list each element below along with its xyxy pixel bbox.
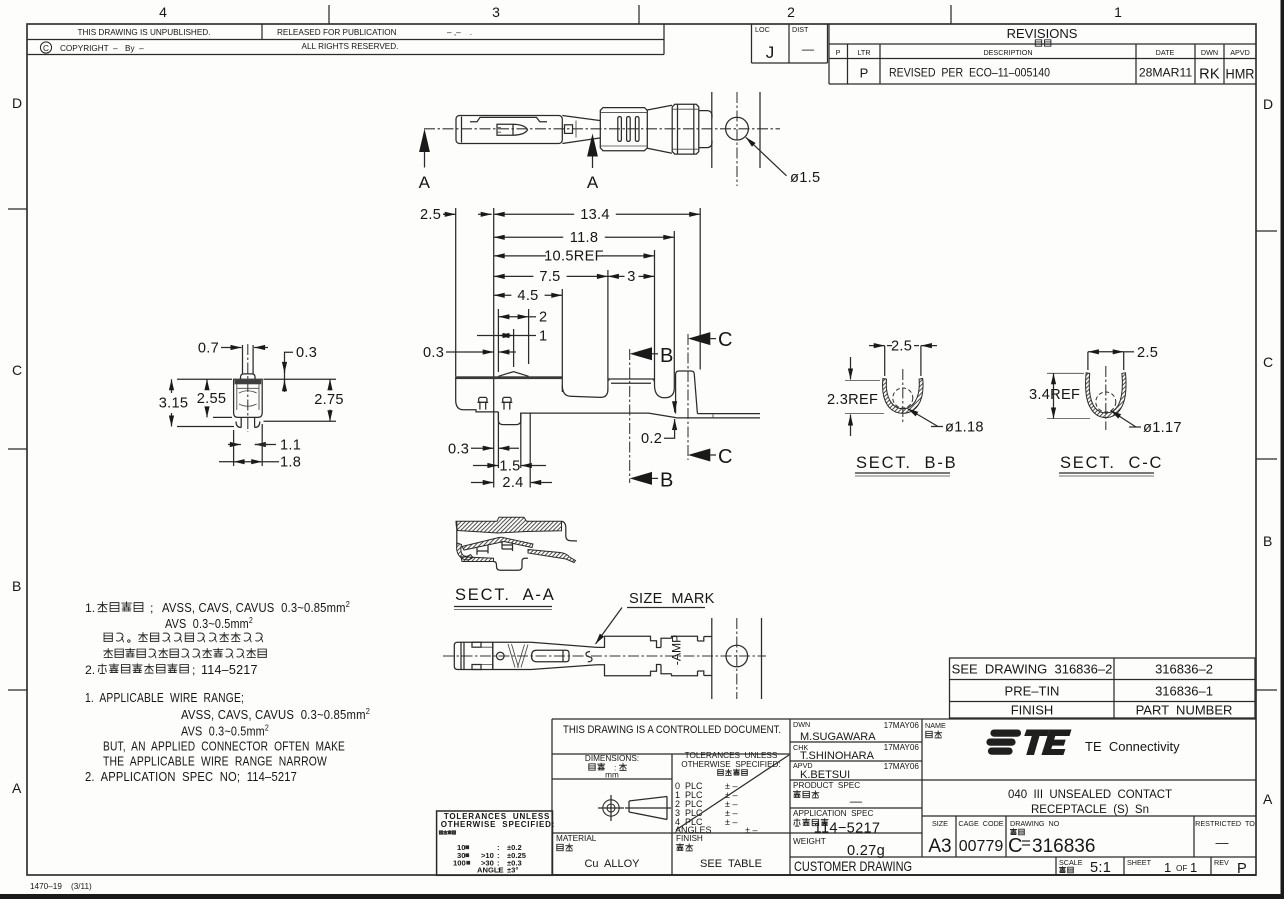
svg-text:LOC: LOC	[755, 25, 770, 34]
bottom view mid compartment	[492, 642, 494, 669]
svg-text:17MAY06: 17MAY06	[884, 721, 920, 730]
dimension 1	[498, 335, 513, 337]
svg-text:316836: 316836	[1032, 836, 1095, 857]
note japanese line 3	[104, 633, 112, 641]
top view carrier hole	[726, 117, 749, 140]
svg-text:7.5: 7.5	[539, 269, 560, 285]
svg-text:J: J	[766, 43, 775, 62]
svg-text:;: ;	[150, 601, 153, 615]
elevation carrier strip	[697, 413, 760, 415]
svg-text:Cu ALLOY: Cu ALLOY	[584, 858, 640, 870]
svg-text:11.8: 11.8	[570, 230, 599, 246]
svg-text:2: 2	[539, 310, 547, 326]
svg-text:SECT. A-A: SECT. A-A	[455, 586, 556, 604]
sect A-A bottom wall right	[528, 550, 576, 563]
svg-text:0.7: 0.7	[198, 340, 219, 356]
dimension 3	[608, 275, 625, 277]
svg-text:—: —	[850, 794, 863, 808]
svg-text:0.2: 0.2	[641, 431, 662, 447]
svg-text:BUT, AN APPLIED CONNECTOR: BUT, AN APPLIED CONNECTOR OFTEN MAKE	[103, 740, 345, 754]
elevation extension lines	[455, 208, 457, 376]
svg-text:C: C	[12, 362, 22, 378]
svg-text:SIZE: SIZE	[932, 819, 948, 828]
finish part-number table	[950, 658, 1256, 718]
front view box body	[234, 379, 263, 417]
svg-text:B: B	[12, 578, 21, 594]
svg-text:DWN: DWN	[793, 720, 810, 729]
svg-text:2.4: 2.4	[502, 475, 523, 491]
svg-text:AVSS, CAVS, CAVUS 0.3~0.85mm2: AVSS, CAVS, CAVUS 0.3~0.85mm2	[181, 707, 370, 722]
top view receptacle body	[456, 116, 562, 144]
svg-text:APPLICATION SPEC: APPLICATION SPEC	[793, 809, 873, 818]
svg-text:0.3: 0.3	[448, 442, 469, 458]
svg-text:B: B	[1263, 533, 1272, 549]
bottom view tapered body	[531, 642, 597, 669]
svg-text:2. APPLICATION SPEC NO; 11: 2. APPLICATION SPEC NO; 114–5217	[85, 770, 297, 784]
svg-text:00779: 00779	[959, 838, 1004, 855]
sect A-A left wall and lower hook	[456, 521, 458, 545]
svg-text:OTHERWISE SPECIFIED:: OTHERWISE SPECIFIED:	[441, 820, 555, 829]
svg-text:DATE: DATE	[1156, 48, 1175, 57]
svg-text:3.15: 3.15	[159, 396, 189, 412]
bottom view carrier connection	[698, 637, 704, 676]
svg-text:2.75: 2.75	[314, 392, 344, 408]
svg-text:1. APPLICABLE WIRE RANGE;: 1. APPLICABLE WIRE RANGE;	[85, 691, 244, 705]
elevation bottom pocket	[498, 412, 520, 425]
svg-text:± –: ± –	[725, 817, 737, 827]
front view inner contact arc	[239, 391, 257, 407]
svg-text:2.3REF: 2.3REF	[827, 392, 878, 408]
elevation bottom edge right	[521, 413, 676, 418]
dimension 11.8	[494, 236, 564, 238]
svg-text:040 III UNSEALED CONTACT: 040 III UNSEALED CONTACT	[1008, 787, 1173, 801]
svg-text:A: A	[12, 780, 22, 796]
tolerance diagonal line	[676, 755, 789, 830]
top view body slot	[470, 117, 547, 121]
section arrow B upper	[630, 347, 652, 360]
elevation insulation crimp wing	[655, 379, 675, 398]
svg-text:114–5217: 114–5217	[201, 663, 258, 677]
svg-text:10.5REF: 10.5REF	[544, 248, 604, 264]
note japanese line 4	[104, 648, 113, 657]
svg-text:P: P	[836, 48, 841, 57]
svg-text:RK: RK	[1199, 67, 1220, 83]
section arrow C upper	[688, 332, 710, 345]
LOC DIST box	[751, 24, 753, 63]
front view lower legs	[236, 417, 260, 427]
sect B-B centerline	[902, 369, 904, 424]
sect B-B wire circle	[893, 388, 913, 408]
svg-text:SECT. C-C: SECT. C-C	[1060, 454, 1163, 472]
svg-text:DWN: DWN	[1201, 48, 1218, 57]
svg-text:1: 1	[1164, 860, 1171, 875]
section line C-C	[687, 334, 689, 460]
section line B-B	[629, 349, 631, 483]
svg-text:13.4: 13.4	[580, 207, 610, 223]
svg-text:OTHERWISE SPECIFIED:: OTHERWISE SPECIFIED:	[681, 760, 780, 769]
front view wire stem	[242, 345, 244, 374]
sect A-A right outline	[562, 521, 578, 541]
top view centerline	[424, 128, 780, 130]
svg-text:NAME: NAME	[925, 721, 946, 730]
svg-text:SEE DRAWING 316836–2: SEE DRAWING 316836–2	[952, 662, 1113, 677]
svg-text:3.4REF: 3.4REF	[1029, 387, 1080, 403]
zone tick marks top	[328, 5, 330, 24]
section arrow B lower	[630, 472, 652, 485]
TE logo	[986, 730, 1071, 756]
svg-text:1.8: 1.8	[280, 455, 301, 471]
svg-text:0.3: 0.3	[423, 345, 444, 361]
svg-text:ANGLE: ANGLE	[477, 866, 504, 875]
wire barrel serrations	[618, 117, 622, 142]
svg-text:AVSS, CAVS, CAVUS 0.3~0.85mm2: AVSS, CAVS, CAVUS 0.3~0.85mm2	[162, 600, 350, 615]
svg-text:C: C	[1263, 354, 1273, 370]
svg-text:AVS 0.3~0.5mm2: AVS 0.3~0.5mm2	[181, 724, 269, 739]
dimension 2	[498, 316, 528, 318]
front view centerline	[247, 344, 249, 432]
svg-text:3: 3	[627, 269, 635, 285]
svg-text:1: 1	[539, 328, 547, 344]
dimension 4.5	[494, 294, 512, 296]
svg-text:MATERIAL: MATERIAL	[556, 834, 597, 843]
svg-text:DIMENSIONS:: DIMENSIONS:	[585, 754, 639, 763]
svg-text:SECT. B-B: SECT. B-B	[856, 454, 957, 472]
svg-text:1: 1	[1114, 4, 1122, 20]
svg-text:DESCRIPTION: DESCRIPTION	[983, 48, 1032, 57]
front view lance dome	[241, 374, 256, 379]
svg-text:RELEASED FOR PUBLICATION: RELEASED FOR PUBLICATION	[277, 28, 397, 37]
svg-text:D: D	[12, 95, 22, 111]
svg-text:OF: OF	[1176, 864, 1187, 873]
svg-text:2.5: 2.5	[420, 207, 441, 223]
svg-text:ø1.18: ø1.18	[945, 420, 984, 436]
svg-text:17MAY06: 17MAY06	[884, 743, 920, 752]
svg-text:17MAY06: 17MAY06	[884, 762, 920, 771]
svg-text:DIST: DIST	[792, 25, 809, 34]
bottom view tongue	[532, 650, 570, 661]
svg-text:A: A	[1263, 791, 1273, 807]
elevation lance bumps	[479, 397, 487, 402]
svg-text:LTR: LTR	[857, 48, 870, 57]
svg-text:C: C	[718, 329, 732, 351]
svg-text:2.5: 2.5	[1137, 345, 1158, 361]
svg-text:B: B	[660, 470, 673, 492]
zone tick marks left	[8, 208, 27, 210]
elevation carrier link tab	[676, 371, 698, 414]
bottom view left box	[454, 642, 493, 669]
svg-text::: :	[497, 866, 500, 875]
svg-text:2.55: 2.55	[197, 391, 227, 407]
svg-text:A3: A3	[928, 836, 951, 857]
svg-text:RECEPTACLE (S) Sn: RECEPTACLE (S) Sn	[1031, 802, 1149, 816]
section cut arrow A left	[419, 129, 430, 152]
svg-text:±3°: ±3°	[507, 866, 518, 875]
elevation body left edge and bottom	[456, 376, 499, 412]
svg-text:PART NUMBER: PART NUMBER	[1136, 703, 1233, 718]
sect C-C crimp outline	[1086, 373, 1126, 418]
bottom view wide section	[597, 636, 661, 675]
svg-text:114−5217: 114−5217	[814, 821, 881, 837]
bottom view neck and amp mark section	[661, 636, 698, 675]
svg-text:SIZE MARK: SIZE MARK	[629, 591, 715, 607]
svg-text:B: B	[660, 345, 673, 367]
svg-text:mm: mm	[605, 771, 619, 780]
bottom view centerline	[443, 655, 766, 657]
size mark leader and label	[596, 608, 623, 645]
svg-text:;: ;	[192, 663, 195, 677]
sect B-B crimp outline	[883, 379, 923, 414]
svg-text:2.: 2.	[85, 663, 95, 677]
svg-text:—: —	[1216, 835, 1229, 850]
svg-text:ALL RIGHTS RESERVED.: ALL RIGHTS RESERVED.	[302, 42, 399, 51]
svg-text:0.3: 0.3	[296, 345, 317, 361]
svg-text:0.27g: 0.27g	[847, 843, 885, 859]
svg-text:THIS DRAWING IS UNPUBLISHED.: THIS DRAWING IS UNPUBLISHED.	[78, 28, 211, 37]
svg-text:1.1: 1.1	[280, 437, 301, 453]
sect C-C wire circle	[1096, 392, 1116, 412]
svg-text:REV: REV	[1214, 858, 1229, 867]
svg-text:P: P	[860, 66, 869, 81]
elevation shelf between wings	[608, 379, 655, 383]
elevation body top band	[456, 376, 563, 379]
svg-text:C: C	[43, 44, 49, 53]
svg-text:1: 1	[1190, 860, 1197, 875]
svg-text:M.SUGAWARA: M.SUGAWARA	[800, 731, 876, 743]
section arrow C lower	[688, 449, 710, 462]
svg-text:100: 100	[453, 859, 466, 868]
top view bullet contact	[497, 124, 528, 135]
svg-text:THIS DRAWING IS A CONTROLLED D: THIS DRAWING IS A CONTROLLED DOCUMENT.	[563, 724, 781, 736]
svg-text:ø1.17: ø1.17	[1143, 420, 1182, 436]
section cut arrow A right	[587, 134, 598, 157]
svg-text:REVISIONS: REVISIONS	[1007, 26, 1078, 41]
svg-text:FINISH: FINISH	[676, 834, 703, 843]
svg-text:ø1.5: ø1.5	[790, 170, 820, 186]
svg-text:TOLERANCES UNLESS: TOLERANCES UNLESS	[685, 751, 778, 760]
top view transition taper	[562, 116, 600, 121]
sect B-B wire diameter leader 1.18	[908, 409, 939, 427]
svg-text:1470–19 (3/11): 1470–19 (3/11)	[30, 882, 92, 891]
svg-text:1.5: 1.5	[499, 458, 520, 474]
front view extension lines	[177, 378, 232, 380]
svg-text:HMR: HMR	[1226, 66, 1255, 82]
svg-text:—: —	[802, 42, 815, 56]
top view wire barrel	[600, 108, 647, 151]
top view insulation barrel	[672, 104, 699, 154]
top view carrier tail hooks	[699, 111, 712, 148]
svg-text:SCALE: SCALE	[1059, 858, 1083, 867]
svg-text:4.5: 4.5	[517, 288, 538, 304]
svg-text:By –: By –	[125, 44, 144, 53]
svg-text:± –: ± –	[745, 825, 757, 835]
svg-text:APVD: APVD	[1230, 48, 1250, 57]
svg-text:CUSTOMER DRAWING: CUSTOMER DRAWING	[794, 858, 912, 874]
elevation wire crimp wing	[562, 385, 608, 397]
svg-text:5:1: 5:1	[1090, 860, 1111, 876]
svg-text:A: A	[587, 173, 599, 192]
bottom view carrier strip edges	[711, 618, 713, 699]
taper to insulation barrel	[647, 105, 672, 110]
svg-text:PRE–TIN: PRE–TIN	[1005, 684, 1060, 699]
header box lines	[27, 39, 664, 41]
page border black bar right edge	[1281, 0, 1284, 899]
size mark S	[586, 652, 592, 662]
svg-text:2: 2	[787, 4, 795, 20]
top view carrier strip edges	[711, 92, 713, 168]
dimension 13.4	[494, 213, 575, 215]
elevation lance ramp	[498, 372, 528, 377]
svg-text:FINISH: FINISH	[1011, 703, 1054, 718]
svg-text:AVS 0.3~0.5mm2: AVS 0.3~0.5mm2	[165, 616, 253, 631]
revisions table grid	[828, 24, 830, 84]
svg-text:P: P	[1237, 861, 1247, 877]
svg-text:316836–2: 316836–2	[1155, 662, 1213, 677]
dimension 0.2	[674, 402, 676, 413]
svg-text:D: D	[1263, 96, 1273, 112]
svg-text:CAGE CODE: CAGE CODE	[958, 819, 1003, 828]
svg-text:316836–1: 316836–1	[1155, 684, 1213, 699]
small tolerance box bottom-left	[437, 811, 553, 875]
svg-text:TE Connectivity: TE Connectivity	[1085, 739, 1180, 754]
svg-text:3: 3	[492, 4, 500, 20]
svg-text:C: C	[718, 446, 732, 468]
hole diameter leader 1.5	[746, 137, 787, 176]
svg-text:COPYRIGHT –: COPYRIGHT –	[60, 44, 118, 53]
svg-text:SHEET: SHEET	[1127, 858, 1152, 867]
sect C-C centerline	[1105, 366, 1107, 430]
bottom view carrier centerline	[736, 618, 738, 699]
svg-text:28MAR11: 28MAR11	[1139, 66, 1193, 80]
svg-text:RESTRICTED TO: RESTRICTED TO	[1195, 819, 1255, 828]
svg-text:2.5: 2.5	[891, 339, 912, 355]
svg-text:– ,– .: – ,– .	[447, 28, 472, 37]
page border black bar bottom edge	[0, 894, 1284, 899]
bottom view carrier hole	[726, 645, 748, 667]
dimension 10.5REF	[494, 255, 546, 257]
sect A-A bottom notch outline	[494, 558, 529, 570]
svg-text:THE APPLICABLE WIRE RANGE: THE APPLICABLE WIRE RANGE NARROW	[103, 755, 327, 769]
svg-text:SEE TABLE: SEE TABLE	[700, 858, 762, 870]
svg-text:WEIGHT: WEIGHT	[793, 837, 826, 846]
sect A-A top wall	[456, 517, 562, 533]
third angle projection symbol	[603, 800, 619, 816]
svg-text:4: 4	[159, 4, 167, 20]
svg-text:K.BETSUI: K.BETSUI	[800, 769, 850, 781]
title block grid	[551, 719, 553, 875]
sect A-A contact dimples	[477, 541, 513, 555]
svg-text:DRAWING NO: DRAWING NO	[1010, 819, 1060, 828]
svg-text:C: C	[1008, 835, 1022, 857]
svg-text:-AMP: -AMP	[670, 635, 684, 665]
sect C-C wire diameter leader 1.17	[1111, 411, 1137, 428]
carrier hole centerline vertical	[736, 92, 738, 186]
zone tick marks right	[1256, 230, 1277, 232]
dimension 7.5	[494, 275, 534, 277]
sect A-A middle contact leaf	[462, 537, 533, 550]
svg-text:1.: 1.	[85, 601, 95, 615]
copyright symbol	[40, 42, 51, 53]
svg-text:PRODUCT SPEC: PRODUCT SPEC	[793, 781, 860, 790]
svg-text:REVISED PER ECO–11–005140: REVISED PER ECO–11–005140	[889, 66, 1050, 80]
svg-text:A: A	[419, 173, 431, 192]
